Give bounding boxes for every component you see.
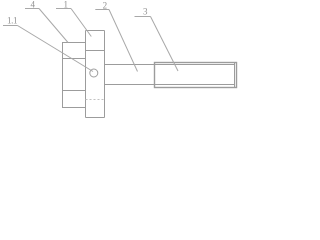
svg-text:1.1: 1.1 xyxy=(7,16,17,26)
block 1 left edge xyxy=(85,31,87,118)
label 4 underline xyxy=(25,8,39,10)
label 3 underline xyxy=(135,16,151,18)
plate 4 bottom edge xyxy=(62,107,86,109)
leader 3 xyxy=(151,17,179,72)
leader 4 xyxy=(39,9,68,43)
plate 4 inner line upper xyxy=(62,58,86,60)
plate 4 inner line lower xyxy=(62,90,86,92)
label 1 underline xyxy=(56,8,71,10)
block 1 right edge xyxy=(104,31,106,118)
threaded end 3 chamfer line xyxy=(234,63,236,88)
leader 2 xyxy=(109,10,138,72)
threaded end 3 inner bottom line xyxy=(155,84,235,86)
svg-text:4: 4 xyxy=(31,0,36,10)
shaft 2 top line xyxy=(105,64,155,66)
shaft 2 bottom line xyxy=(105,84,155,86)
leader 1.1 xyxy=(18,26,94,72)
svg-text:2: 2 xyxy=(103,1,108,11)
block 1 bottom edge xyxy=(86,117,105,119)
svg-text:3: 3 xyxy=(143,7,148,17)
plate 4 left edge xyxy=(62,43,64,108)
leader 1 xyxy=(71,9,91,37)
plate 4 top edge xyxy=(62,42,86,44)
hole 1.1 circle xyxy=(90,69,98,77)
block 1 top edge xyxy=(86,30,105,32)
threaded end 3 inner top line xyxy=(155,64,235,66)
svg-text:1: 1 xyxy=(64,0,69,10)
block 1 divider xyxy=(86,50,105,52)
threaded end 3 outline xyxy=(155,63,237,88)
block 1 dashed line xyxy=(86,99,105,101)
label 1.1 underline xyxy=(3,25,18,27)
label 2 underline xyxy=(95,9,109,11)
